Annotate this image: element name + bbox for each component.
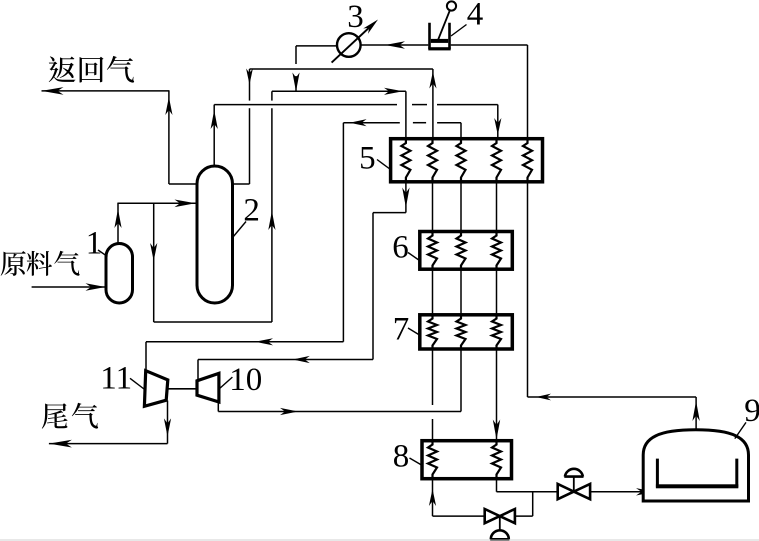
wire x=433 below HX8 [432,479,434,516]
heat exchanger 5 (box) [391,139,543,182]
wire riser x=272 lower [271,108,273,322]
wire regulator drop x=296 stub [295,46,297,64]
expander 11 (trapezoid) [144,371,167,407]
svg-text:10: 10 [229,362,262,398]
wire x=406 below HX5 [405,182,407,213]
arrow down to V2 shoulder [246,69,253,85]
wire regulator drop x=296 lower [295,76,297,92]
wire tee drop x=533 [532,492,534,516]
wire shaft 11-10 [168,388,197,390]
tick for label 4 [451,25,467,37]
wire liquid line to valve B [497,491,559,493]
label text 原 (feed gas) [1,251,26,276]
coil x=432.5 in HX8 [428,441,437,479]
label text 回 [80,57,104,83]
tick for label 6 [408,253,420,261]
arrow left toward expander [255,338,273,345]
svg-text:3: 3 [347,0,364,35]
wire cup4 to corner y=45 [451,44,528,46]
arrow return-gas left [42,87,64,95]
wire bypass horizontal y=322 [154,321,272,323]
coil x=432.5 in HX5 [428,139,437,182]
tick for label 2 [233,222,246,238]
wire drop x=498 into HX5 [497,105,499,139]
arrow into V2 left wall [175,200,196,208]
wire expander feed drop x=343 [342,123,344,342]
wire expander exhaust x=167.5 [167,401,169,444]
arrow up from V1 [114,209,121,228]
svg-text:7: 7 [393,312,410,348]
wire jog y=213 [373,212,406,214]
wire riser x=272 upper [271,91,273,100]
tick for label 8 [410,458,422,465]
arrow down below HX5 [402,188,409,208]
coil x=496.5 in HX6 [492,232,501,270]
coil x=496.5 in HX5 [492,139,501,182]
svg-text:8: 8 [393,439,410,475]
label text 料 [27,251,52,276]
wire x=433 down seg2 [432,419,434,441]
wire drop x=406 into HX5 [405,91,407,138]
arrow up V2 overhead [211,110,218,129]
gas holder 4 (cup with float) [430,23,450,49]
wire x=496.5 HX5-HX6 [496,182,498,232]
coil x=527.5 in HX5 [523,139,532,182]
wire downcomer x=527.5 below HX5 [527,182,529,397]
wire V1 to V2 y=203 [118,202,198,204]
tank 9 (dome vessel) [643,430,748,501]
wire overhead header y=105 seg1 [214,104,397,106]
arrow down into HX8 [493,420,500,440]
arrow into tank 9 [636,488,655,495]
arrowhead of regulator 3 diagonal [363,20,378,34]
label text 返 (return gas) [49,56,76,82]
arrow up on return riser [165,97,172,115]
vessel 2 (separator column) [197,166,233,303]
diaphragm of valve A [491,530,509,539]
tick for label 7 [408,328,420,335]
wire expander header y=123 seg1 [343,122,399,124]
coil x=432.5 in HX6 [428,232,437,270]
svg-text:11: 11 [100,361,132,397]
svg-text:5: 5 [359,141,376,177]
arrow left compressor suction [293,356,310,363]
wire valve A to tee [515,515,533,517]
wire into expander 11 top [145,342,147,372]
tick for label 11 [130,378,144,389]
arrow up from HX5 pass2 [429,72,436,89]
wire tank vapor y=397 [528,396,697,398]
wire x=461 HX6-HX7 [460,269,462,315]
tick for label 1 [98,250,108,257]
wire drop x=373 [372,213,374,360]
float ball of gas holder 4 [447,1,456,10]
diaphragm of valve B [565,469,583,477]
compressor 10 (trapezoid) [197,373,219,402]
wire x=433 HX5-HX6 [432,182,434,232]
svg-text:2: 2 [243,193,260,229]
coil x=496.5 in HX8 [492,441,501,479]
wire compressor discharge y=411.5 [218,411,461,413]
arrow right compressor discharge [280,408,298,415]
arrow down on bypass [150,243,157,261]
wire circle3 left line y=46 [296,45,337,47]
wire overhead header y=105 seg3 [437,104,498,106]
wire feed gas y=287 [32,286,107,288]
wire x=496.5 HX6-HX7 [496,269,498,315]
scan artifact bottom edge [0,539,759,541]
stem of gas holder 4 [437,11,450,43]
arrow left on tank vapor line [536,394,551,401]
wire expander header y=123 seg2 [413,122,426,124]
diaphragm base of valve A [490,538,509,541]
coil x=461 in HX6 [457,232,466,270]
tick for label 9 [735,422,746,438]
wire expander feed y=342 [146,341,343,343]
wire downcomer x=527.5 above HX5 [527,45,529,139]
arrow tail gas left [49,440,72,448]
tank 9 inner liner [657,459,736,486]
wire into V2 right shoulder [231,183,250,185]
wire into compressor 10 top [197,360,199,382]
stem of valve A [499,516,501,529]
J-T valve B (bowtie, actuator above) [558,484,574,499]
label text 气 [107,56,134,83]
wire stub x=461 into HX5 [460,123,462,139]
coil x=432.5 in HX7 [428,315,437,349]
coil x=496.5 in HX7 [492,315,501,349]
svg-text:1: 1 [86,226,103,262]
throttle valve A (bowtie, actuator below) [485,509,500,523]
tick for label 10 [219,377,233,389]
wire drop x=249.5 lower [249,108,251,184]
arrow down into HX5 pass4 [494,118,501,135]
wire x=496.5 below HX8 [496,479,498,492]
arrow down expander exhaust [164,418,171,436]
coil x=461 in HX5 [457,139,466,182]
wire V1 top riser x=118 [117,203,119,244]
wire V2 overhead riser x=214 [213,105,215,167]
diaphragm base of valve B [564,475,583,478]
arrow left into circle3 [385,41,405,48]
coil x=461 in HX7 [457,315,466,349]
wire compressor outlet drop [217,402,219,412]
wire x=461 HX5-HX6 [460,182,462,232]
arrow up into HX8 [429,489,436,506]
wire tail gas y=443.6 [49,443,168,445]
wire into V2 left shoulder y=184 [169,183,199,185]
coil x=405.9 in HX5 [401,139,410,182]
heat exchanger 8 (box) [422,441,512,479]
heat exchanger 7 (box) [420,315,513,349]
wire overhead header y=105 seg2 [412,104,427,106]
wire x=433 HX6-HX7 [432,269,434,315]
wire circle3 to cup4 y=45 [361,44,429,46]
wire header y=92 [272,90,406,92]
wire x=433 HX7 down seg1 [432,349,434,405]
wire compressor suction y=359.5 [198,359,373,361]
wire riser x=433 above HX5 [432,69,434,139]
wire tank 9 top nozzle [695,397,697,431]
stem of valve B [573,477,575,492]
arrow feed into V1 [86,283,106,291]
wire riser x=461 below HX7 [460,349,462,412]
wire header y=69 [250,68,433,70]
arrow up on riser x=272 [268,211,275,230]
regulator 3 (circle with diagonal arrow) [337,33,361,57]
heat exchanger 6 (box) [420,232,513,270]
label text 尾 (tail gas) [42,403,68,428]
svg-text:6: 6 [392,229,409,265]
arrow left on expander header [350,119,367,126]
vessel 1 (knockout drum) [106,244,133,303]
arrow down into header y=92 [292,73,299,92]
label text 气 [54,251,79,276]
wire return-gas horizontal y=91 [42,90,169,92]
arrow up from tank 9 [692,401,699,421]
label text 气 [72,403,98,429]
wire return-gas vertical x=169 [168,90,170,184]
svg-text:9: 9 [744,393,759,429]
wire to valve A y=516 [433,515,486,517]
tick for label 5 [377,160,391,170]
svg-text:4: 4 [467,0,484,33]
wire drop x=249.5 upper [249,69,251,101]
arrow right on header y=92 [384,88,403,95]
wire valve B to tank [590,491,651,493]
wire expander header y=123 seg3 [437,122,461,124]
wire x=496.5 HX7-HX8 [496,349,498,441]
wire bypass drop x=154 [153,203,155,322]
